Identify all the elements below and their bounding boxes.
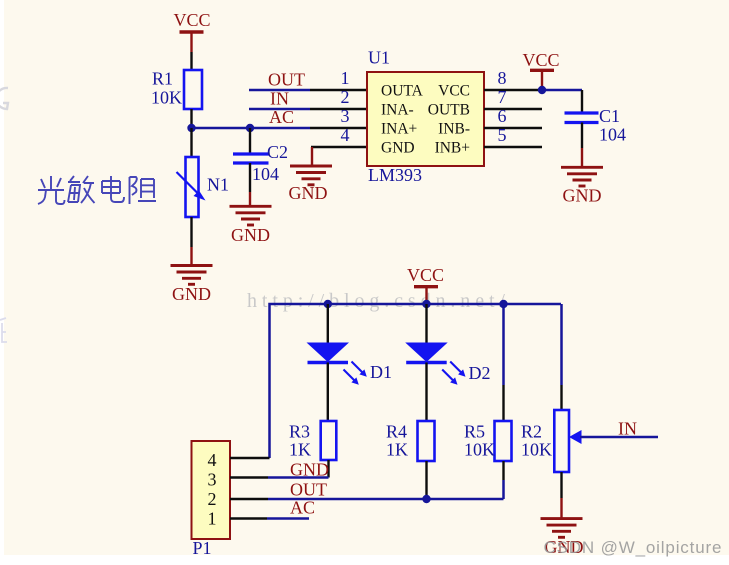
wire R1 to node [190, 109, 192, 128]
svg-text:U1: U1 [368, 48, 390, 68]
resistor R1 [151, 69, 202, 110]
wire OUT net [268, 498, 504, 501]
svg-text:OUTA: OUTA [381, 82, 424, 99]
LED D2 [405, 343, 490, 385]
ground (below R2) [541, 519, 584, 557]
svg-text:2: 2 [208, 489, 217, 509]
svg-text:R5: R5 [464, 422, 485, 442]
resistor R3 [289, 421, 336, 460]
svg-text:P1: P1 [193, 538, 212, 558]
svg-text:GND: GND [563, 186, 602, 206]
敏 [68, 176, 80, 182]
wire node to C2 node and AC pin [192, 127, 311, 130]
svg-text:5: 5 [498, 125, 507, 145]
wire R5 to OUT net [502, 461, 504, 480]
label 光敏电阻 (hand-drawn strokes) [38, 176, 156, 204]
ground (below C2) [230, 206, 272, 245]
svg-text:1K: 1K [386, 440, 408, 460]
faint watermark glyph fragment top-left [0, 88, 8, 109]
svg-text:INA+: INA+ [381, 120, 417, 137]
svg-text:OUTB: OUTB [428, 101, 470, 118]
wire D2 to R4 [425, 363, 427, 422]
wire C2 node down [249, 128, 251, 153]
svg-text:CSDN @W_oilpicture: CSDN @W_oilpicture [544, 538, 723, 557]
svg-text:N1: N1 [207, 175, 229, 195]
LED D1 [307, 343, 393, 385]
电 [110, 176, 112, 198]
svg-text:R3: R3 [289, 422, 310, 442]
阻 [130, 177, 137, 204]
wire AC net [267, 517, 309, 520]
svg-text:R1: R1 [152, 69, 173, 89]
svg-text:4: 4 [341, 125, 350, 145]
wire R4 to OUT net [425, 461, 427, 499]
svg-text:C2: C2 [267, 142, 288, 162]
svg-text:OUT: OUT [268, 70, 305, 90]
svg-text:INB+: INB+ [435, 139, 470, 156]
svg-text:4: 4 [208, 450, 217, 470]
svg-text:104: 104 [252, 164, 279, 184]
wire C1 to ground [581, 123, 583, 149]
svg-text:IN: IN [618, 419, 637, 439]
pin 4 wire [311, 146, 367, 148]
capacitor C2 [233, 142, 288, 184]
resistor R4 [386, 421, 435, 461]
svg-text:R4: R4 [386, 422, 407, 442]
P1 pin 3 wire [230, 476, 268, 478]
wire VCC to R1 [190, 52, 192, 70]
svg-text:1: 1 [208, 509, 217, 529]
op-amp U1 body [367, 48, 484, 186]
pin 2 wire [310, 108, 367, 110]
pin 1 wire [310, 89, 367, 91]
potentiometer R2 [521, 410, 582, 472]
光 [41, 176, 61, 189]
wire GND net [268, 476, 329, 479]
svg-text:VCC: VCC [438, 82, 470, 99]
svg-text:10K: 10K [151, 88, 182, 108]
ground (below C1) [561, 167, 603, 205]
svg-text:8: 8 [498, 68, 507, 88]
ground (U1 pin 4) [289, 166, 333, 203]
svg-text:10K: 10K [521, 440, 552, 460]
pin 3 wire [310, 127, 367, 129]
wire rail corner to R2 [560, 304, 563, 385]
ground (below N1) [171, 266, 213, 305]
svg-text:GND: GND [381, 139, 415, 156]
wire net IN [249, 108, 310, 111]
svg-text:INB-: INB- [438, 120, 470, 137]
P1 pin 4 wire [230, 457, 270, 459]
wire pin4 to ground [311, 147, 313, 166]
wire node to N1 [190, 128, 192, 157]
pin 8 wire [484, 89, 542, 91]
svg-text:VCC: VCC [522, 50, 559, 70]
node at R1/N1 [187, 124, 195, 132]
photoresistor N1 [177, 157, 230, 217]
svg-text:2: 2 [341, 87, 350, 107]
node rail/R5 [499, 300, 507, 308]
wire N1 to GND [190, 217, 192, 247]
wire net OUT [249, 89, 310, 92]
wire R3 to GND net [327, 460, 329, 478]
wire node to C1 [542, 89, 582, 92]
svg-text:R2: R2 [521, 422, 542, 442]
pin 7 wire [484, 108, 542, 110]
node rail/VCC/D2 [422, 300, 430, 308]
wire C2 to ground [249, 163, 251, 192]
wire D1 to R3 [327, 363, 329, 422]
power VCC (right of U1) [522, 50, 559, 90]
svg-text:104: 104 [599, 125, 626, 145]
wire R2 to ground [560, 472, 562, 498]
P1 pin 1 wire [230, 517, 267, 519]
connector P1 [192, 441, 231, 558]
resistor R5 [464, 421, 512, 461]
node OUT/R4 [422, 495, 430, 503]
pin 6 wire [484, 127, 542, 129]
wire rail to R5 [502, 304, 505, 385]
wire rail to D1 [327, 304, 329, 343]
wire top rail [270, 304, 562, 458]
wire IN net [580, 436, 658, 439]
node rail/D1 [324, 300, 332, 308]
node at pin 8 / VCC [538, 86, 546, 94]
wire rail to D2 [425, 304, 427, 343]
svg-text:D1: D1 [370, 362, 392, 382]
svg-text:GND: GND [231, 225, 270, 245]
svg-text:10K: 10K [464, 440, 495, 460]
svg-text:7: 7 [498, 87, 507, 107]
svg-text:AC: AC [269, 107, 294, 127]
svg-text:3: 3 [341, 106, 350, 126]
power VCC (R1 top) [173, 10, 210, 52]
svg-text:1: 1 [341, 68, 350, 88]
svg-text:VCC: VCC [407, 265, 444, 285]
svg-text:OUT: OUT [290, 480, 327, 500]
node at C2 [246, 124, 254, 132]
svg-text:GND: GND [172, 284, 211, 304]
svg-text:6: 6 [498, 106, 507, 126]
svg-text:IN: IN [270, 89, 289, 109]
svg-text:http://blog.csdn.net/: http://blog.csdn.net/ [247, 290, 510, 312]
svg-text:D2: D2 [469, 363, 491, 383]
svg-text:INA-: INA- [381, 101, 414, 118]
svg-text:1K: 1K [289, 440, 311, 460]
svg-text:AC: AC [290, 498, 315, 518]
svg-text:3: 3 [208, 470, 217, 490]
svg-text:LM393: LM393 [368, 165, 422, 185]
power VCC (bottom rail) [407, 265, 444, 304]
U1 pin names [381, 82, 470, 156]
svg-text:GND: GND [289, 183, 328, 203]
svg-text:GND: GND [290, 460, 329, 480]
P1 pin 2 wire [230, 498, 268, 500]
capacitor C1 [565, 106, 627, 145]
pin 5 wire [484, 146, 542, 148]
faint watermark glyph fragment mid-left [0, 318, 7, 342]
svg-text:VCC: VCC [173, 10, 210, 30]
svg-text:C1: C1 [599, 106, 620, 126]
